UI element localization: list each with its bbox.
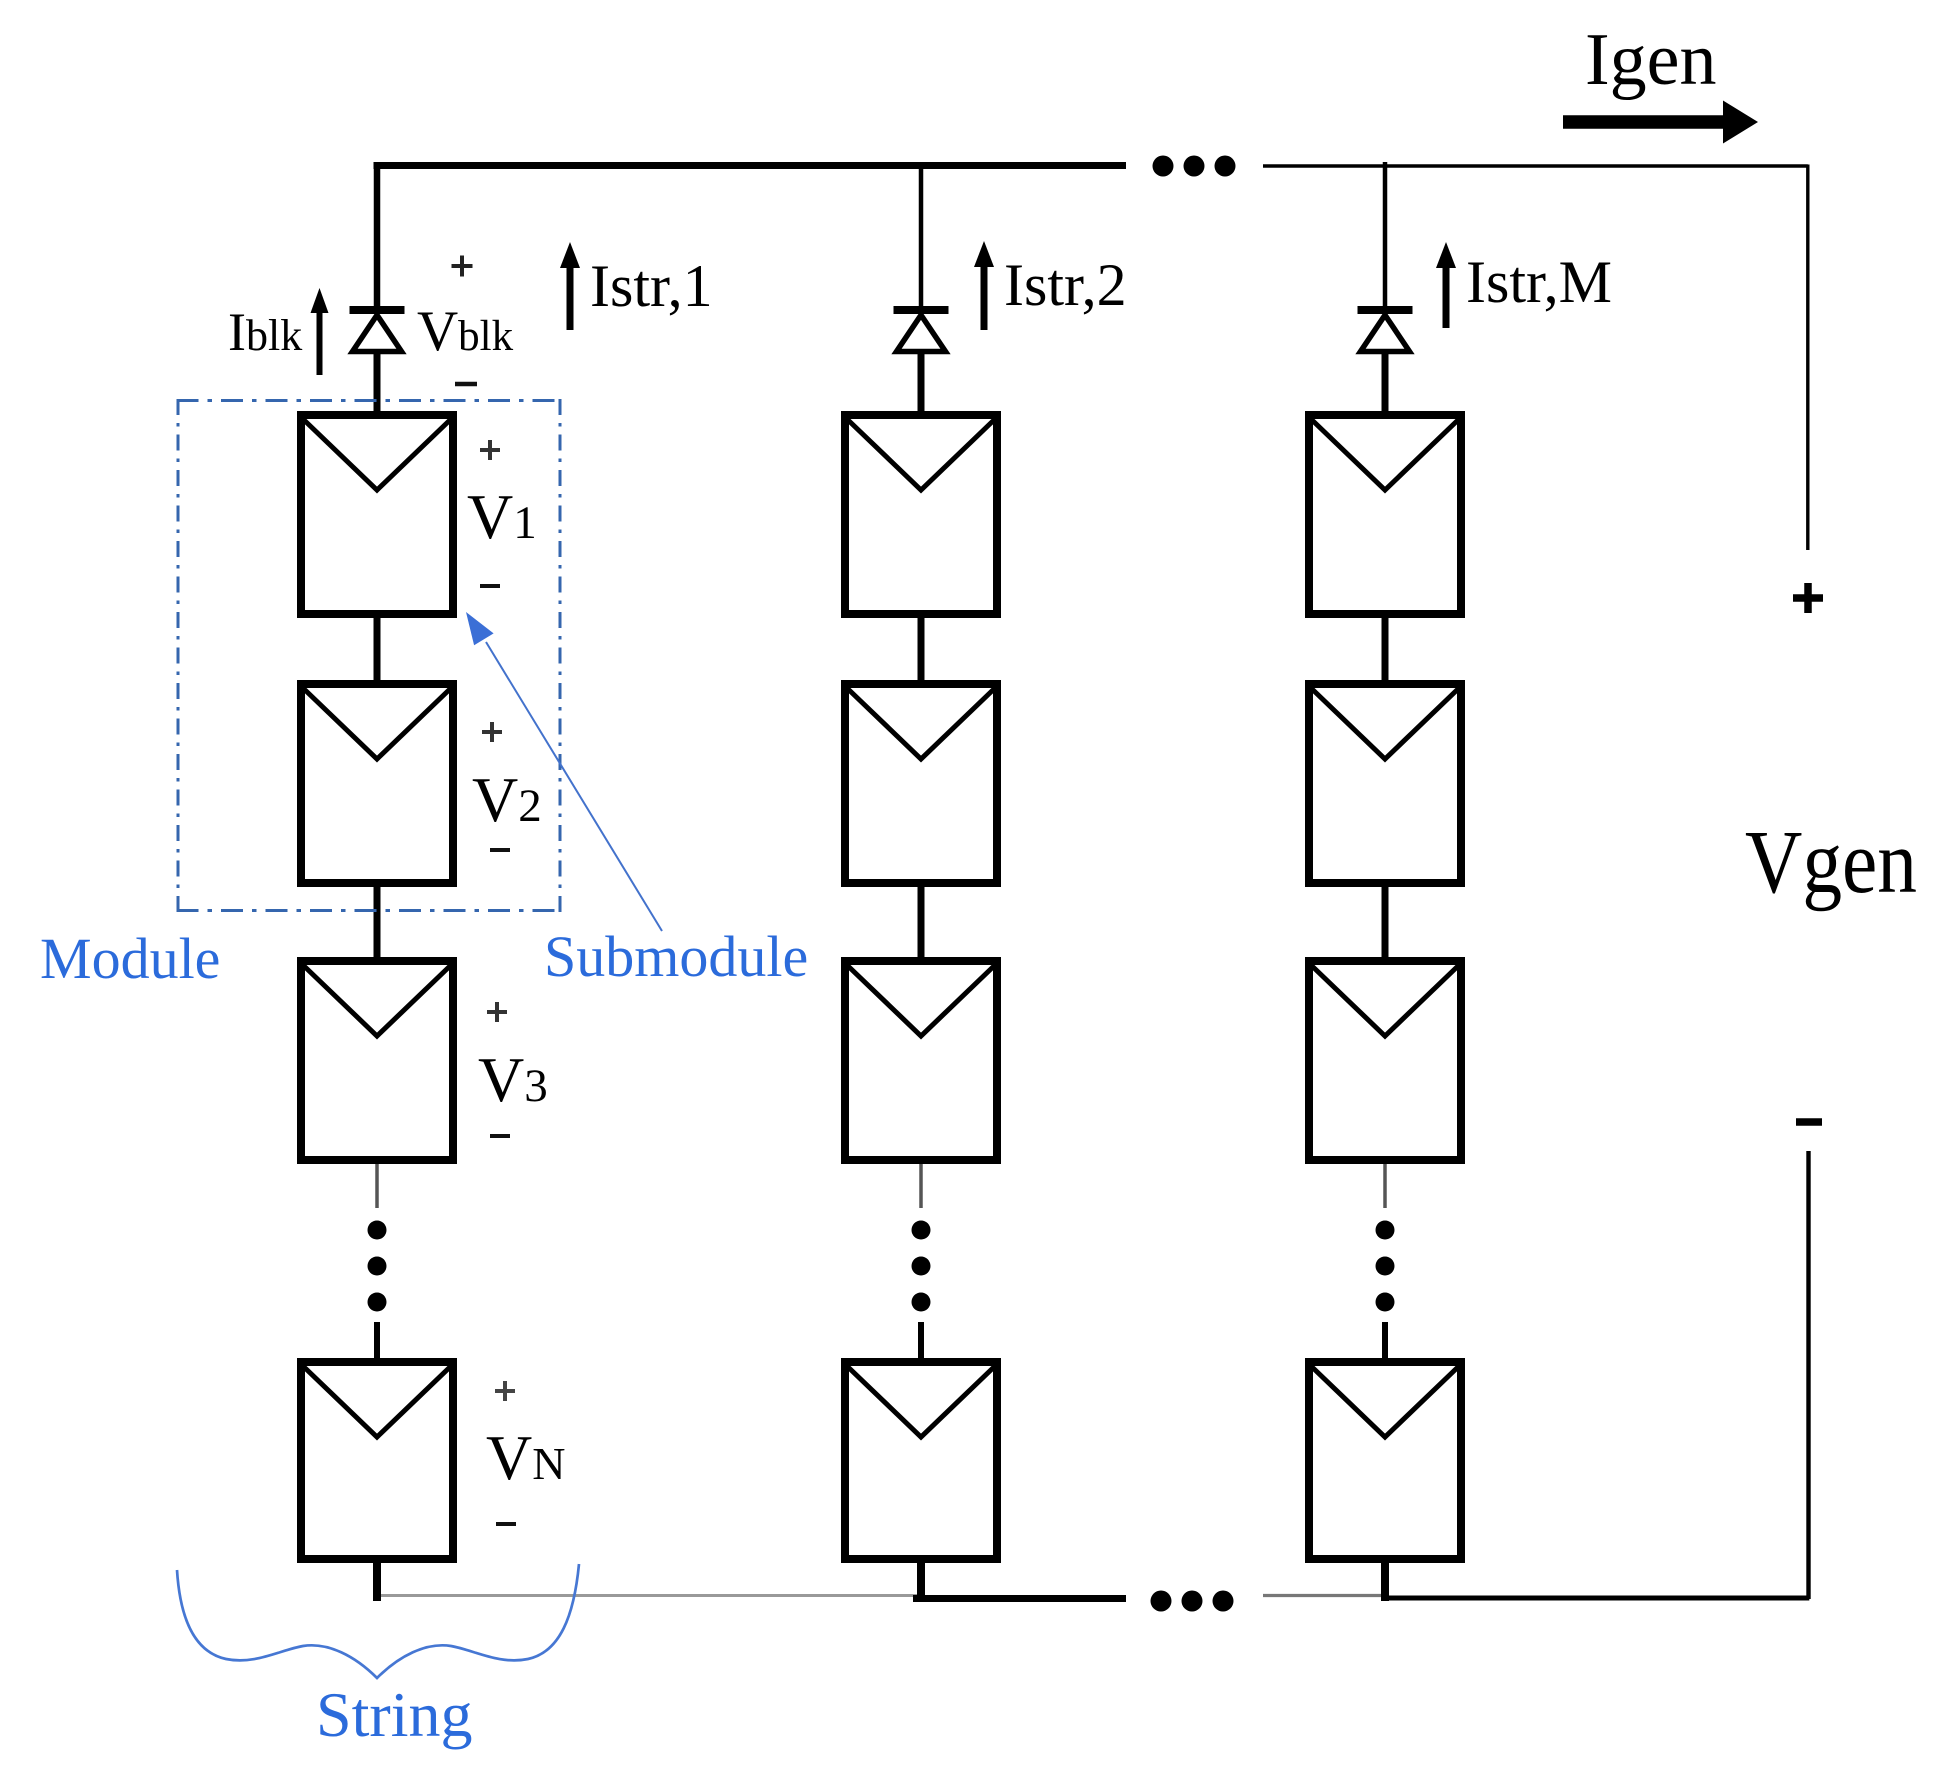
svg-text:Submodule: Submodule [544,924,808,989]
svg-text:Iblk: Iblk [228,302,302,362]
svg-text:Istr,M: Istr,M [1466,249,1612,315]
svg-text:String: String [316,1679,472,1750]
svg-text:Istr,1: Istr,1 [590,253,713,319]
svg-text:Module: Module [40,926,220,991]
svg-text:Vgen: Vgen [1745,813,1917,912]
svg-text:Istr,2: Istr,2 [1004,252,1127,318]
svg-text:Igen: Igen [1585,19,1717,101]
